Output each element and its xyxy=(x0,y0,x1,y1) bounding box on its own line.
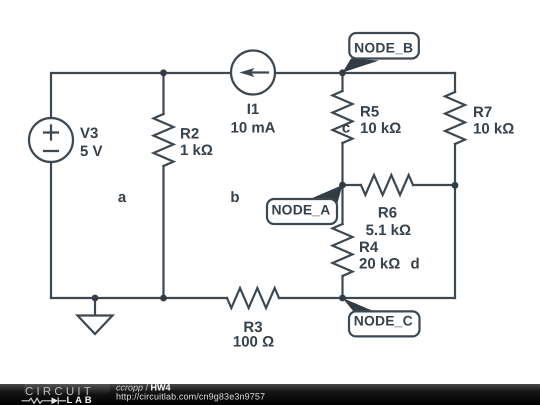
svg-text:5 V: 5 V xyxy=(80,143,103,160)
svg-text:NODE_C: NODE_C xyxy=(354,313,413,329)
svg-text:10 kΩ: 10 kΩ xyxy=(360,120,401,137)
svg-text:R6: R6 xyxy=(378,205,397,222)
svg-text:a: a xyxy=(118,189,127,206)
svg-text:1 kΩ: 1 kΩ xyxy=(180,142,213,159)
svg-text:LAB: LAB xyxy=(67,395,95,405)
svg-text:R4: R4 xyxy=(359,239,379,256)
svg-text:I1: I1 xyxy=(247,101,260,118)
svg-text:10 kΩ: 10 kΩ xyxy=(473,121,514,138)
svg-text:b: b xyxy=(230,189,239,206)
svg-text:R5: R5 xyxy=(360,104,379,121)
svg-text:NODE_A: NODE_A xyxy=(271,201,330,217)
svg-text:d: d xyxy=(411,256,420,273)
svg-text:5.1 kΩ: 5.1 kΩ xyxy=(366,222,411,239)
svg-text:c: c xyxy=(342,120,350,137)
svg-text:10 mA: 10 mA xyxy=(230,120,275,137)
svg-text:NODE_B: NODE_B xyxy=(354,40,413,56)
svg-text:R7: R7 xyxy=(473,104,492,121)
svg-text:20 kΩ: 20 kΩ xyxy=(359,256,400,273)
svg-text:100 Ω: 100 Ω xyxy=(233,334,274,351)
svg-text:V3: V3 xyxy=(80,125,98,142)
svg-text:R2: R2 xyxy=(180,125,199,142)
svg-text:http://circuitlab.com/cn9g83e3: http://circuitlab.com/cn9g83e3n9757 xyxy=(116,392,265,402)
